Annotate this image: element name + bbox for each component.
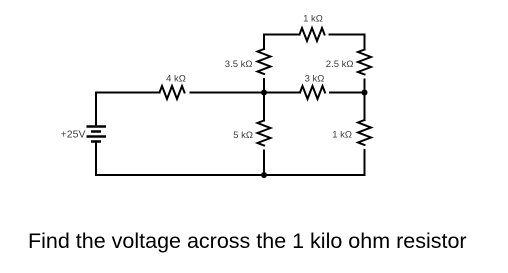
wire left vertical battery top (95, 93, 97, 126)
resistor 1k top zigzag (300, 28, 325, 41)
battery V1 +25V (87, 127, 107, 142)
svg-text:5 kΩ: 5 kΩ (233, 130, 253, 141)
svg-text:4 kΩ: 4 kΩ (166, 74, 186, 85)
wire 1k right upper lead (364, 93, 366, 121)
wire 2.5k lower lead (364, 80, 366, 93)
svg-text:3 kΩ: 3 kΩ (305, 74, 325, 85)
wire 1k right lower lead (364, 150, 366, 175)
svg-text:2.5 kΩ: 2.5 kΩ (326, 59, 354, 70)
node junction B middle rail / 2.5k / 1k (362, 90, 368, 96)
caption text (28, 229, 467, 254)
resistor 3k zigzag (300, 86, 325, 99)
resistor 5k zigzag (258, 121, 271, 146)
wire middle rail left lead (96, 92, 160, 94)
wire bottom rail (96, 174, 365, 176)
svg-text:1 kΩ: 1 kΩ (303, 14, 323, 25)
wire top rail right segment (330, 35, 365, 50)
svg-text:3.5 kΩ: 3.5 kΩ (225, 59, 253, 70)
svg-text:+25V: +25V (61, 129, 86, 141)
resistor 3.5k zigzag (258, 49, 271, 74)
node junction C bottom rail / 5k (261, 172, 267, 178)
wire 5k lower lead (263, 151, 265, 176)
wire middle rail center segment (191, 92, 301, 94)
node junction A middle rail / 3.5k / 5k (261, 90, 267, 96)
wire left vertical battery bottom (95, 143, 97, 175)
wire top rail left segment (264, 35, 300, 50)
wire 3.5k lower lead (263, 79, 265, 93)
svg-text:1 kΩ: 1 kΩ (332, 130, 352, 141)
wire 5k upper lead (263, 93, 265, 121)
resistor 4k zigzag (160, 86, 185, 99)
wire middle rail right lead (330, 92, 365, 94)
resistor 1k right zigzag (358, 120, 371, 145)
resistor 2.5k zigzag (358, 50, 371, 75)
